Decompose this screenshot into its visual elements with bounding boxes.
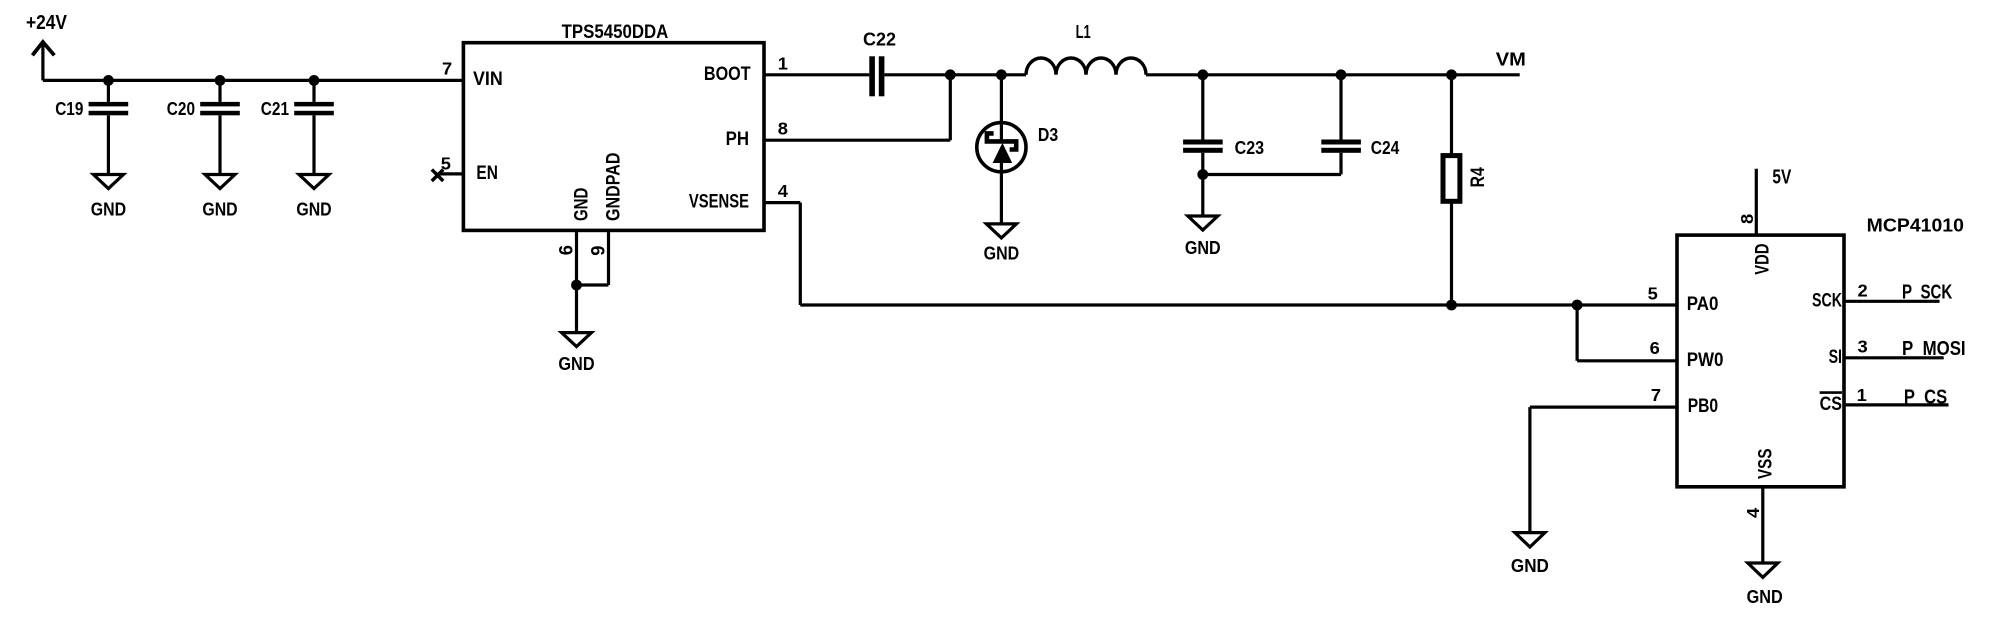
svg-text:VDD: VDD [1753, 244, 1774, 275]
svg-text:GNDPAD: GNDPAD [603, 153, 624, 222]
svg-text:TPS5450DDA: TPS5450DDA [562, 22, 669, 43]
svg-text:VM: VM [1496, 49, 1526, 69]
svg-text:+24V: +24V [26, 12, 68, 34]
svg-text:GND: GND [1747, 587, 1783, 607]
svg-text:VSS: VSS [1756, 449, 1777, 480]
svg-text:P_CS: P_CS [1904, 387, 1947, 409]
svg-text:7: 7 [1651, 385, 1661, 405]
svg-text:PW0: PW0 [1687, 350, 1724, 371]
svg-text:GND: GND [1185, 238, 1221, 258]
svg-text:8: 8 [778, 119, 788, 139]
svg-text:EN: EN [476, 163, 498, 184]
svg-text:PB0: PB0 [1688, 396, 1718, 417]
svg-text:SI: SI [1829, 347, 1842, 368]
svg-text:5: 5 [441, 153, 451, 173]
svg-text:GND: GND [202, 199, 237, 219]
svg-text:VIN: VIN [473, 69, 503, 90]
svg-text:PH: PH [726, 129, 749, 150]
svg-text:5V: 5V [1772, 166, 1791, 188]
svg-text:GND: GND [571, 188, 592, 221]
svg-text:C19: C19 [55, 99, 83, 119]
svg-text:GND: GND [91, 199, 126, 219]
svg-text:C22: C22 [863, 29, 896, 49]
svg-text:C21: C21 [261, 99, 289, 119]
svg-text:6: 6 [1650, 338, 1660, 358]
svg-text:C23: C23 [1235, 138, 1265, 158]
svg-text:P_SCK: P_SCK [1902, 282, 1953, 304]
svg-text:8: 8 [1737, 214, 1757, 224]
svg-text:VSENSE: VSENSE [689, 192, 749, 213]
svg-text:GND: GND [1511, 556, 1549, 576]
svg-text:C24: C24 [1371, 138, 1400, 158]
svg-text:1: 1 [1857, 385, 1867, 405]
svg-text:4: 4 [778, 181, 788, 201]
svg-text:P_MOSI: P_MOSI [1902, 338, 1966, 360]
svg-text:R4: R4 [1468, 167, 1489, 188]
svg-text:GND: GND [984, 243, 1020, 263]
svg-text:1: 1 [778, 53, 788, 73]
svg-text:GND: GND [558, 354, 594, 374]
svg-text:SCK: SCK [1812, 290, 1842, 311]
svg-text:4: 4 [1743, 508, 1763, 518]
svg-text:C20: C20 [167, 99, 195, 119]
svg-text:2: 2 [1858, 281, 1868, 301]
svg-text:PA0: PA0 [1687, 294, 1719, 315]
svg-text:BOOT: BOOT [704, 64, 751, 85]
svg-text:CS: CS [1820, 394, 1842, 415]
svg-text:9: 9 [589, 246, 610, 256]
svg-text:D3: D3 [1038, 125, 1058, 145]
svg-text:3: 3 [1858, 337, 1868, 357]
svg-text:GND: GND [296, 199, 331, 219]
svg-text:MCP41010: MCP41010 [1867, 215, 1964, 235]
svg-text:5: 5 [1648, 284, 1658, 304]
svg-text:L1: L1 [1076, 22, 1091, 42]
svg-text:7: 7 [442, 59, 452, 79]
svg-text:6: 6 [557, 245, 578, 255]
